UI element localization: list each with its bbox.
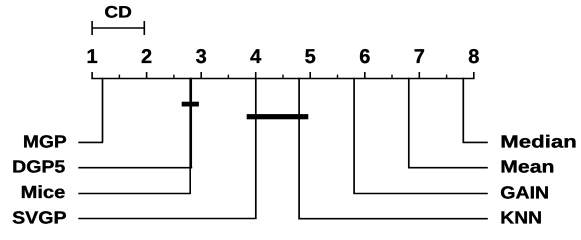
row line KNN — [298, 218, 488, 220]
CD bracket line — [92, 27, 144, 29]
svg-text:1: 1 — [87, 46, 98, 68]
major tick 7 — [418, 72, 420, 79]
axis line — [91, 78, 474, 80]
svg-text:DGP5: DGP5 — [12, 157, 65, 177]
riser Mean — [408, 78, 410, 168]
svg-text:4: 4 — [250, 46, 262, 68]
clique bar DGP5-Mice — [182, 102, 199, 107]
svg-text:SVGP: SVGP — [12, 207, 67, 227]
svg-text:CD: CD — [104, 4, 132, 22]
major tick 8 — [473, 72, 475, 79]
row line GAIN — [353, 193, 488, 195]
minor tick 4.5 — [282, 75, 284, 79]
major tick 1 — [91, 72, 93, 79]
svg-text:Mice: Mice — [21, 182, 66, 202]
svg-text:6: 6 — [359, 46, 370, 68]
svg-text:GAIN: GAIN — [500, 182, 549, 202]
row line SVGP — [78, 218, 256, 220]
svg-text:5: 5 — [305, 46, 316, 68]
riser MGP — [102, 78, 104, 143]
major tick 6 — [364, 72, 366, 79]
minor tick 2.5 — [173, 75, 175, 79]
svg-text:2: 2 — [141, 46, 152, 68]
row line DGP5 — [78, 167, 192, 169]
minor tick 1.5 — [118, 75, 120, 79]
svg-text:KNN: KNN — [500, 208, 542, 228]
row line Mean — [408, 167, 488, 169]
row line Mice — [78, 193, 191, 195]
riser DGP5 — [190, 78, 192, 168]
minor tick 6.5 — [391, 75, 393, 79]
minor tick 5.5 — [337, 75, 339, 79]
major tick 5 — [309, 72, 311, 79]
riser SVGP — [255, 78, 257, 219]
CD bracket right tick — [143, 21, 145, 35]
major tick 4 — [255, 72, 257, 79]
svg-text:8: 8 — [468, 46, 479, 68]
riser Median — [462, 78, 464, 143]
riser Mice — [189, 78, 191, 194]
svg-text:MGP: MGP — [23, 131, 67, 151]
clique bar SVGP-KNN — [247, 114, 309, 119]
row line MGP — [78, 141, 103, 143]
minor tick 3.5 — [227, 75, 229, 79]
svg-text:3: 3 — [196, 46, 207, 68]
CD bracket left tick — [91, 21, 93, 35]
svg-text:Median: Median — [500, 132, 577, 152]
riser KNN — [298, 78, 300, 219]
minor tick 7.5 — [446, 75, 448, 79]
major tick 2 — [146, 72, 148, 79]
row line Median — [463, 141, 488, 143]
svg-text:Mean: Mean — [500, 157, 554, 177]
riser GAIN — [353, 78, 355, 194]
svg-text:7: 7 — [414, 46, 425, 68]
major tick 3 — [200, 72, 202, 79]
